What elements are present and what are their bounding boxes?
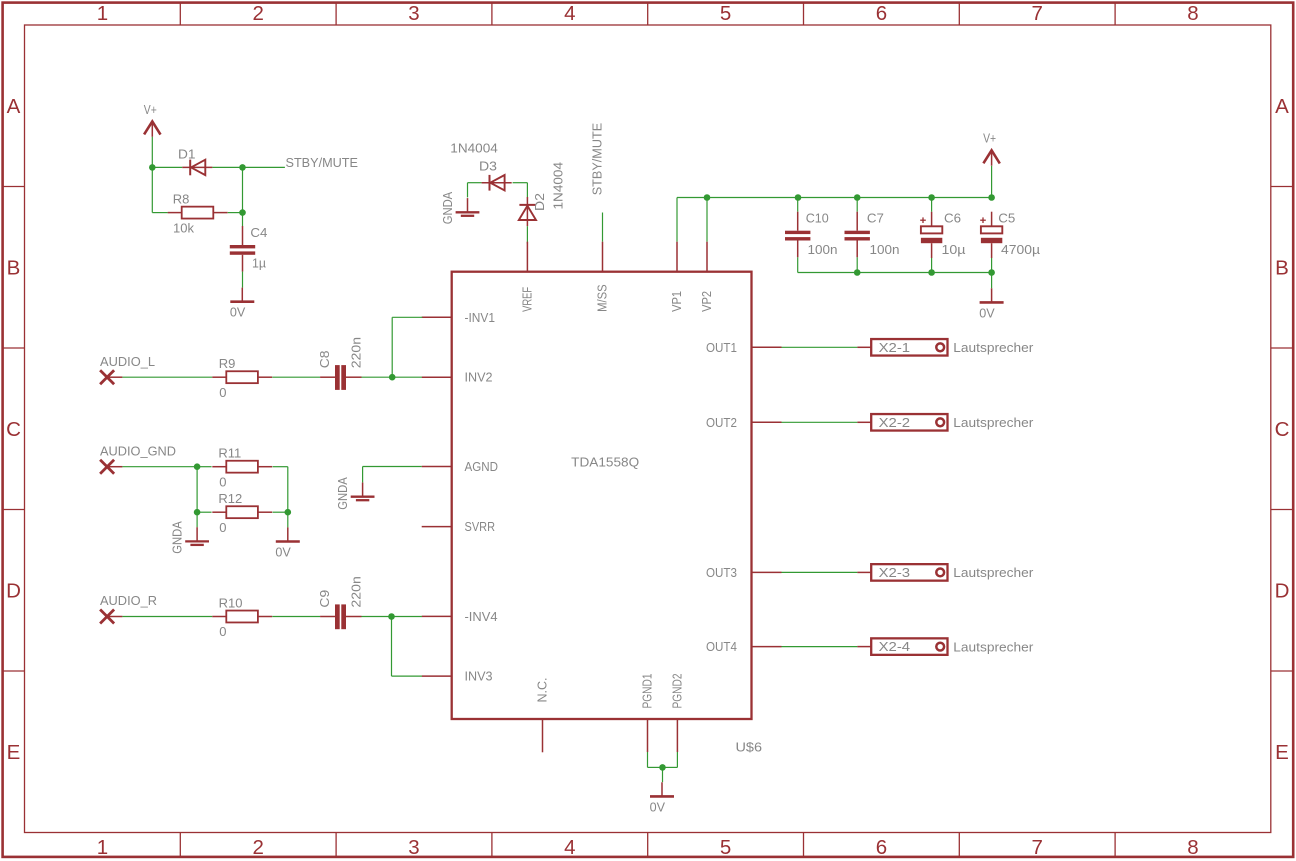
resistor R11	[212, 446, 272, 490]
svg-text:5: 5	[720, 2, 731, 25]
wire C9 to junction	[362, 616, 392, 618]
svg-text:Lautsprecher: Lautsprecher	[953, 565, 1034, 580]
resistor R9	[212, 356, 272, 400]
svg-text:V+: V+	[983, 131, 996, 146]
wire to -INV4	[392, 616, 422, 618]
svg-text:N.C.: N.C.	[535, 678, 550, 703]
net flag AUDIO_GND	[100, 443, 176, 473]
svg-text:Lautsprecher: Lautsprecher	[953, 415, 1034, 430]
wire to -INV1	[392, 316, 422, 318]
wire to 0V	[287, 512, 289, 527]
svg-text:U$6: U$6	[736, 740, 763, 755]
wire AUDIO_R to R10	[122, 616, 212, 618]
wire VP2 riser	[706, 198, 708, 242]
svg-text:AUDIO_R: AUDIO_R	[100, 593, 157, 608]
svg-text:B: B	[1275, 257, 1289, 280]
svg-text:2: 2	[252, 836, 263, 859]
svg-text:VP2: VP2	[699, 291, 714, 312]
svg-text:INV2: INV2	[465, 370, 493, 385]
svg-text:10k: 10k	[173, 220, 194, 235]
junction C5/V+ top	[988, 194, 995, 201]
junction VP2	[704, 194, 711, 201]
svg-text:220n: 220n	[348, 337, 363, 368]
svg-text:R8: R8	[173, 191, 190, 206]
wire top V+ rail	[677, 197, 992, 199]
svg-text:C4: C4	[250, 225, 267, 240]
capacitor C10	[785, 212, 810, 258]
svg-text:C8: C8	[317, 351, 332, 369]
connector X2-2	[857, 414, 947, 431]
junction PGND	[659, 764, 666, 771]
svg-text:100n: 100n	[870, 242, 900, 257]
wire riser to -INV1	[391, 317, 393, 377]
ground GNDA (at D3)	[440, 192, 480, 225]
junction C7 bottom	[854, 269, 861, 276]
svg-text:R9: R9	[219, 356, 236, 371]
wire OUT3 to X2-3	[782, 571, 858, 573]
wire AGND down	[362, 467, 364, 483]
svg-text:0V: 0V	[230, 305, 246, 320]
pin PGND2	[669, 674, 684, 753]
svg-text:4700µ: 4700µ	[1001, 242, 1041, 257]
wire STBY junction down	[242, 167, 244, 212]
wire GNDA riser	[467, 183, 469, 198]
pin AGND	[422, 459, 498, 474]
wire C4 to ground	[242, 272, 244, 288]
wire	[273, 511, 288, 513]
svg-text:1N4004: 1N4004	[551, 162, 566, 210]
junction STBY/MUTE node	[239, 164, 246, 171]
svg-text:R10: R10	[219, 595, 243, 610]
wire to GNDA	[196, 512, 198, 527]
wire V+ down to R8	[151, 167, 153, 212]
junction C5 bottom	[988, 269, 995, 276]
svg-text:C5: C5	[998, 211, 1015, 226]
resistor R12	[212, 491, 272, 535]
svg-text:1: 1	[97, 836, 108, 859]
capacitor C5 (polarized)	[980, 212, 1002, 258]
junction -INV4 node	[388, 613, 395, 620]
wire	[663, 766, 678, 768]
svg-text:V+: V+	[144, 102, 157, 117]
supply V+ (left)	[144, 102, 161, 137]
svg-text:0: 0	[219, 474, 226, 489]
svg-text:7: 7	[1031, 2, 1042, 25]
svg-text:GNDA: GNDA	[440, 192, 455, 225]
wire	[513, 182, 528, 184]
svg-text:B: B	[7, 257, 21, 280]
svg-text:C: C	[1275, 418, 1290, 441]
wire	[468, 182, 482, 184]
svg-text:A: A	[7, 95, 21, 118]
svg-text:INV3: INV3	[465, 669, 493, 684]
ground 0V (under C4)	[230, 288, 254, 320]
wire AGND left	[363, 466, 422, 468]
wire R10 to C9	[272, 616, 320, 618]
connector X2-1	[857, 339, 947, 356]
svg-text:SVRR: SVRR	[465, 519, 496, 534]
svg-text:3: 3	[408, 2, 419, 25]
wire riser to INV3	[391, 617, 393, 677]
pin -INV1	[422, 310, 495, 325]
svg-text:TDA1558Q: TDA1558Q	[571, 454, 639, 469]
svg-text:C9: C9	[317, 590, 332, 608]
svg-text:C10: C10	[806, 211, 829, 226]
diode D3	[482, 175, 512, 191]
svg-text:-INV1: -INV1	[465, 310, 496, 325]
wire OUT1 to X2-1	[782, 346, 858, 348]
svg-text:X2-3: X2-3	[879, 565, 911, 580]
wire to INV3	[392, 675, 422, 677]
svg-text:OUT3: OUT3	[706, 565, 737, 580]
svg-text:0V: 0V	[650, 799, 666, 814]
svg-text:D3: D3	[479, 159, 497, 174]
svg-text:0V: 0V	[979, 305, 995, 320]
capacitor C6 (polarized)	[920, 212, 942, 258]
svg-text:3: 3	[408, 836, 419, 859]
svg-text:4: 4	[564, 836, 575, 859]
resistor R10	[212, 595, 272, 639]
wire	[152, 212, 168, 214]
wire D2 to VREF	[526, 226, 528, 244]
junction R12 left	[194, 509, 201, 516]
svg-text:VREF: VREF	[519, 287, 534, 312]
svg-text:R11: R11	[218, 446, 241, 461]
svg-text:2: 2	[252, 2, 263, 25]
svg-text:X2-4: X2-4	[879, 639, 911, 654]
svg-text:GNDA: GNDA	[170, 521, 185, 554]
junction INV2 node	[389, 374, 396, 381]
svg-text:AGND: AGND	[465, 459, 499, 474]
svg-text:R12: R12	[218, 491, 242, 506]
junction AUDIO_GND/R11	[194, 463, 201, 470]
junction C6 top	[928, 194, 935, 201]
svg-text:D1: D1	[178, 146, 196, 161]
wire R9 to C8	[272, 376, 320, 378]
svg-text:1: 1	[97, 2, 108, 25]
svg-text:STBY/MUTE: STBY/MUTE	[589, 122, 604, 195]
wire VP1 riser	[676, 198, 678, 242]
wire C6 to bottom rail	[931, 258, 933, 273]
wire left riser down	[196, 467, 198, 513]
wire PGND1 down	[647, 752, 649, 767]
pin OUT3	[706, 565, 782, 580]
svg-text:0V: 0V	[275, 544, 291, 559]
wire C7 to bottom rail	[856, 257, 858, 272]
svg-text:C: C	[6, 418, 21, 441]
wire	[197, 511, 212, 513]
wire STBY/MUTE to M/SS	[602, 213, 604, 242]
svg-text:GNDA: GNDA	[335, 477, 350, 510]
wire to C4	[242, 213, 244, 227]
pin OUT2	[706, 415, 782, 430]
diode D1	[182, 160, 212, 176]
capacitor C8	[320, 365, 361, 390]
svg-text:0: 0	[219, 520, 226, 535]
wire	[151, 137, 153, 168]
svg-text:10µ: 10µ	[942, 242, 967, 257]
svg-text:PGND1: PGND1	[640, 674, 655, 709]
wire bottom 0V rail	[798, 272, 992, 274]
ground GNDA (at AGND)	[335, 477, 375, 510]
svg-text:Lautsprecher: Lautsprecher	[953, 340, 1034, 355]
pin SVRR	[422, 519, 495, 534]
wire	[273, 466, 288, 468]
pin PGND1	[640, 674, 655, 753]
svg-text:D: D	[6, 580, 21, 603]
wire R11 riser down	[287, 467, 289, 513]
junction net STBY/MUTE at V+ branch	[149, 164, 156, 171]
pin -INV4	[422, 609, 498, 624]
ground GNDA (below R12)	[170, 521, 210, 554]
svg-text:E: E	[7, 741, 21, 764]
wire OUT2 to X2-2	[782, 421, 858, 423]
wire to C6	[931, 198, 933, 212]
pin VP1	[669, 242, 684, 312]
pin M/SS	[595, 242, 610, 312]
op-amp IC U$6 TDA1558Q body	[452, 272, 752, 719]
junction R12 right	[285, 509, 292, 516]
wire V+ to rail	[991, 166, 993, 198]
svg-text:AUDIO_L: AUDIO_L	[100, 354, 155, 369]
resistor R8	[168, 191, 228, 235]
wire C5 to bottom rail	[991, 258, 993, 273]
wire C8 to junction	[362, 376, 393, 378]
svg-text:220n: 220n	[348, 576, 363, 607]
svg-text:0: 0	[219, 385, 226, 400]
svg-text:8: 8	[1187, 2, 1198, 25]
connector X2-4	[857, 638, 947, 655]
pin VREF	[519, 242, 534, 312]
capacitor C4	[230, 226, 255, 272]
supply V+ (right)	[983, 131, 1000, 166]
pin OUT4	[706, 639, 782, 654]
svg-text:6: 6	[876, 2, 887, 25]
wire to C10	[797, 198, 799, 212]
svg-text:E: E	[1275, 741, 1289, 764]
wire PGND2 down	[676, 752, 678, 767]
svg-text:C6: C6	[944, 211, 961, 226]
svg-text:8: 8	[1187, 836, 1198, 859]
diode D2	[519, 197, 536, 226]
pin VP2	[699, 242, 714, 312]
pin INV3	[422, 669, 493, 684]
svg-text:OUT2: OUT2	[706, 415, 737, 430]
svg-text:STBY/MUTE: STBY/MUTE	[286, 155, 359, 170]
svg-text:C7: C7	[867, 211, 884, 226]
ground 0V (PGND)	[650, 782, 674, 814]
junction C10 top	[795, 194, 802, 201]
wire	[526, 183, 528, 197]
junction R8/C4/STBY	[239, 209, 246, 216]
svg-text:OUT1: OUT1	[706, 340, 737, 355]
svg-text:1N4004: 1N4004	[450, 141, 498, 156]
wire	[243, 166, 285, 168]
svg-text:-INV4: -INV4	[465, 609, 498, 624]
svg-text:1µ: 1µ	[252, 256, 266, 271]
net flag AUDIO_R	[100, 593, 157, 623]
svg-text:VP1: VP1	[669, 291, 684, 312]
wire OUT4 to X2-4	[782, 646, 858, 648]
wire	[648, 766, 663, 768]
svg-text:7: 7	[1031, 836, 1042, 859]
svg-text:100n: 100n	[808, 242, 838, 257]
svg-text:AUDIO_GND: AUDIO_GND	[100, 443, 176, 458]
wire to C7	[856, 198, 858, 212]
pin N.C.	[535, 678, 550, 753]
wire	[212, 166, 242, 168]
pin INV2	[422, 370, 493, 385]
svg-text:0: 0	[219, 624, 226, 639]
svg-text:PGND2: PGND2	[669, 674, 684, 709]
junction C7 top	[854, 194, 861, 201]
junction C6 bottom	[928, 269, 935, 276]
pin OUT1	[706, 340, 782, 355]
svg-text:X2-1: X2-1	[879, 340, 911, 355]
wire	[197, 466, 212, 468]
svg-text:X2-2: X2-2	[879, 415, 911, 430]
wire AUDIO_L to R9	[122, 376, 212, 378]
capacitor C9	[320, 604, 361, 629]
capacitor C7	[845, 212, 870, 258]
wire to INV2	[392, 376, 422, 378]
net flag AUDIO_L	[100, 354, 155, 384]
wire C10 to bottom rail	[797, 257, 799, 272]
svg-text:A: A	[1275, 95, 1289, 118]
svg-text:4: 4	[564, 2, 575, 25]
svg-text:5: 5	[720, 836, 731, 859]
svg-text:M/SS: M/SS	[595, 284, 610, 312]
wire AUDIO_GND to junction	[122, 466, 197, 468]
svg-text:6: 6	[876, 836, 887, 859]
wire	[152, 166, 182, 168]
wire to 0V ground	[991, 273, 993, 289]
ground 0V (below R12)	[275, 527, 299, 559]
svg-text:D2: D2	[532, 193, 547, 211]
wire	[228, 212, 243, 214]
wire PGND to ground	[662, 767, 664, 782]
svg-text:OUT4: OUT4	[706, 639, 737, 654]
svg-text:Lautsprecher: Lautsprecher	[953, 639, 1034, 654]
svg-text:D: D	[1275, 580, 1290, 603]
connector X2-3	[857, 564, 947, 581]
ground 0V (right)	[979, 288, 1003, 320]
